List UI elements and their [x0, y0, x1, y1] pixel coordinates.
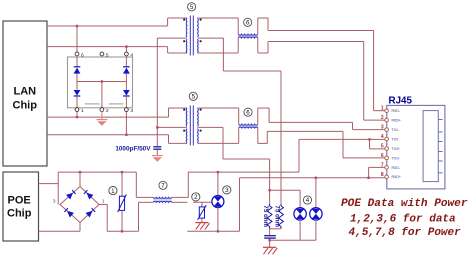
- svg-text:2: 2: [381, 115, 384, 121]
- capacitor C1 1000pF/50V: [115, 145, 161, 155]
- svg-text:6: 6: [81, 52, 84, 58]
- wire T2 secondary bottom: [198, 142, 239, 144]
- wire V+ rail to RJ45 pins 4,5: [188, 138, 385, 197]
- common-mode choke 6 (bottom): [239, 108, 258, 143]
- svg-text:1,2,3,6 for data: 1,2,3,6 for data: [350, 214, 456, 226]
- svg-text:1: 1: [81, 108, 84, 114]
- svg-text:LAN: LAN: [14, 86, 37, 98]
- svg-text:TX2+: TX2+: [392, 147, 400, 151]
- svg-text:6: 6: [246, 20, 250, 27]
- resistor R2 75 ohm: [274, 204, 284, 229]
- transformer 5 (bottom): [183, 106, 202, 146]
- wire LAN TX- (rail 2): [47, 47, 187, 53]
- ground (array pin2): [97, 112, 108, 126]
- TVS diode pair 4: [270, 177, 322, 241]
- label 4: [303, 196, 311, 204]
- svg-text:4: 4: [306, 197, 310, 204]
- wire choke6b to RJ45 pin6: [258, 131, 386, 158]
- svg-text:2: 2: [194, 194, 198, 201]
- svg-text:RXD+: RXD+: [392, 119, 401, 123]
- wire T1 secondary bottom: [198, 52, 239, 54]
- ground (C1): [152, 156, 163, 162]
- wire T1 secondary center tap: [198, 38, 282, 71]
- caption: POE Data with Power: [341, 198, 468, 239]
- wire array pin4 riser: [125, 45, 127, 54]
- label 5 (T2): [189, 92, 197, 100]
- capacitor C2: [264, 229, 281, 247]
- ground (C2 earth): [263, 247, 277, 254]
- wire T2 tap to resistor (Bob Smith): [268, 159, 270, 204]
- wire T1 secondary top: [198, 17, 239, 19]
- svg-text:5: 5: [192, 94, 196, 101]
- transformer 5 (top): [183, 16, 202, 56]
- svg-text:Chip: Chip: [13, 100, 38, 112]
- common-mode choke 7: [136, 172, 188, 231]
- wire T1 primary center tap: [157, 38, 187, 146]
- varistor 2: [193, 202, 212, 222]
- svg-text:7: 7: [161, 183, 165, 190]
- wire choke6 to RJ45 pin1: [258, 18, 386, 111]
- wire choke6b to RJ45 pin3: [258, 108, 386, 130]
- RJ45 connector J1: [381, 96, 445, 189]
- svg-text:1: 1: [381, 106, 384, 112]
- svg-text:3: 3: [130, 108, 133, 114]
- label 6 (top choke): [244, 18, 252, 26]
- label 6 (bottom choke): [244, 108, 252, 116]
- svg-text:3: 3: [225, 187, 229, 194]
- svg-text:4,5,7,8 for Power: 4,5,7,8 for Power: [349, 227, 462, 239]
- svg-text:POE: POE: [8, 194, 31, 206]
- svg-text:Chip: Chip: [7, 208, 32, 220]
- svg-text:RXD+: RXD+: [392, 175, 401, 179]
- diode array U1: [68, 52, 134, 114]
- common-mode choke 6 (top): [238, 18, 258, 53]
- wire POE chip bottom output: [39, 223, 81, 232]
- svg-text:1: 1: [111, 188, 115, 195]
- wire T2 secondary center tap: [198, 127, 270, 159]
- svg-text:TX1-: TX1-: [392, 128, 400, 132]
- svg-text:4: 4: [381, 134, 384, 140]
- svg-text:8: 8: [381, 172, 384, 178]
- svg-text:RXD-: RXD-: [392, 166, 401, 170]
- svg-text:7: 7: [381, 162, 384, 168]
- wire array pin3 riser: [125, 110, 127, 136]
- svg-text:5: 5: [190, 4, 194, 11]
- wire T1 tap to resistor (Bob Smith): [280, 71, 282, 204]
- LAN chip U2: [3, 21, 47, 166]
- label 5 (T1): [188, 3, 196, 11]
- svg-text:75 ohm: 75 ohm: [274, 205, 281, 227]
- svg-text:5: 5: [106, 52, 109, 58]
- POE chip U3: [3, 172, 39, 241]
- svg-text:6: 6: [381, 153, 384, 159]
- wire choke6 to RJ45 pin2: [258, 42, 386, 121]
- wire bridge output to bottom rail: [99, 205, 139, 232]
- ground (varistor 2): [195, 223, 209, 230]
- wire T2 primary center tap: [156, 126, 187, 128]
- varistor 1: [118, 171, 127, 233]
- svg-text:TX1+: TX1+: [392, 156, 400, 160]
- svg-text:RXD-: RXD-: [392, 109, 401, 113]
- svg-text:75 ohm: 75 ohm: [262, 205, 269, 227]
- wire V- rail to RJ45 pins 7,8: [240, 167, 386, 179]
- svg-text:2: 2: [106, 108, 109, 114]
- wire T2 secondary top: [198, 107, 239, 109]
- label 1: [109, 187, 117, 195]
- svg-text:RJ45: RJ45: [389, 96, 413, 107]
- svg-text:1000pF/50V: 1000pF/50V: [115, 145, 151, 152]
- bridge rectifier D1: [53, 187, 105, 223]
- svg-text:5: 5: [381, 144, 384, 150]
- wire POE chip top output: [39, 172, 59, 204]
- label 2: [192, 193, 200, 201]
- resistor R1 75 ohm: [262, 204, 272, 229]
- label 3: [223, 186, 231, 194]
- svg-text:3: 3: [381, 125, 384, 131]
- label 7: [159, 181, 167, 189]
- wire array pin6 riser: [76, 25, 78, 54]
- wire LAN RX- (rail 4): [47, 135, 187, 144]
- svg-text:4: 4: [130, 52, 133, 58]
- svg-text:6: 6: [246, 109, 250, 116]
- svg-text:TX2-: TX2-: [392, 137, 400, 141]
- wire LAN TX+ (rail 1): [47, 18, 187, 26]
- svg-text:POE Data with Power: POE Data with Power: [341, 198, 468, 210]
- wire array pin1 riser: [76, 110, 78, 119]
- TVS diode 3: [212, 171, 224, 233]
- wire LAN RX+ (rail 3): [47, 108, 187, 117]
- wire V- bottom rail: [187, 178, 239, 232]
- wire bridge AC rail (top): [58, 171, 136, 187]
